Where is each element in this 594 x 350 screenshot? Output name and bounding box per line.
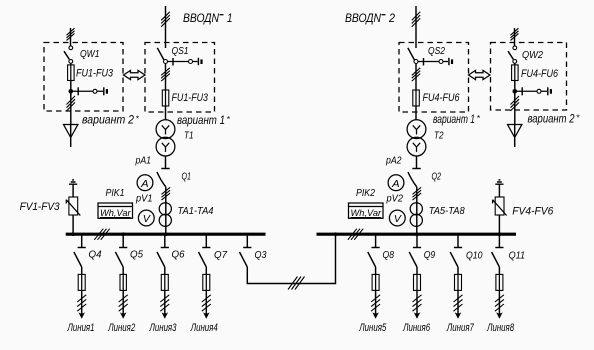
- switch QW2 top circle: [513, 46, 517, 50]
- svg-text:Q9: Q9: [424, 249, 436, 261]
- three-phase slashes (line 7): [454, 295, 463, 311]
- wire arrester to bus: [72, 215, 74, 233]
- wire input 2 drop: [415, 6, 417, 48]
- wire input 1 drop: [165, 6, 167, 48]
- bus-tie switch Q3 stub: [243, 236, 251, 248]
- svg-text:Линия4: Линия4: [190, 322, 218, 334]
- wire fuse to arrow (line 1): [81, 290, 83, 317]
- svg-text:V: V: [394, 213, 402, 225]
- svg-text:FU4-FU6: FU4-FU6: [423, 92, 461, 104]
- ground (FV4-FV6): [495, 180, 503, 184]
- fuse (line 2): [120, 274, 126, 290]
- three-phase slashes (line 3): [160, 295, 169, 311]
- label Q3: [255, 249, 267, 261]
- ammeter pA1: [137, 175, 153, 191]
- svg-text:Wh,Var: Wh,Var: [351, 208, 382, 219]
- svg-text:pV1: pV1: [135, 194, 152, 205]
- wire fuse to arrow (line 3): [164, 290, 166, 317]
- svg-text:ВВОДN: ВВОДN: [183, 11, 219, 25]
- svg-text:TA1-TA4: TA1-TA4: [178, 206, 214, 217]
- label FU1-FU3 (QS1 branch): [172, 92, 209, 104]
- label pV2: [386, 194, 404, 205]
- feeder switch Q9 blade: [409, 252, 417, 267]
- switch Q1 blade: [157, 172, 166, 187]
- svg-text:QS2: QS2: [428, 45, 445, 57]
- fuse (line 8): [496, 274, 503, 290]
- feeder switch Q10 blade: [450, 252, 458, 267]
- wire through triangle: [514, 125, 516, 148]
- variant-1 dashed box (right): [399, 43, 469, 113]
- svg-text:FV1-FV3: FV1-FV3: [20, 201, 61, 213]
- wire T2 to Q2 contact: [416, 156, 418, 169]
- label Линия1: [67, 322, 95, 334]
- earthing branch of QW2: blade circle: [537, 89, 541, 93]
- svg-text:A: A: [140, 178, 149, 190]
- ground (QS2 earthing): [449, 58, 453, 65]
- junction dot FV4-bus: [498, 232, 502, 236]
- label ВВОДN 1: [183, 11, 233, 25]
- three-phase slashes above QW2: [511, 28, 519, 40]
- label pA2: [385, 155, 402, 166]
- wire fuse to arrow (line 7): [457, 290, 459, 317]
- svg-text:ВВОДN: ВВОДN: [345, 11, 381, 25]
- wire fuse to arrow (line 6): [416, 290, 418, 317]
- wire Q4 to fuse: [81, 267, 83, 274]
- three-phase slashes below QS2: [412, 68, 420, 81]
- three-phase slashes (line 2): [119, 295, 128, 311]
- disconnector QS1 blade: [157, 48, 164, 60]
- label Линия2: [107, 322, 135, 334]
- cable termination triangle (right): [508, 125, 522, 138]
- label Линия8: [486, 322, 514, 334]
- wire fuse to T1: [165, 106, 167, 120]
- label Q5: [130, 249, 143, 261]
- label Q4: [89, 249, 102, 261]
- switch QW2 bottom circle: [513, 60, 517, 64]
- junction dot T2-bus: [415, 232, 419, 236]
- feeder switch Q6 blade: [157, 252, 165, 267]
- three-phase slashes above QW1: [67, 28, 75, 40]
- label QS1: [172, 45, 189, 57]
- label FV4-FV6: [512, 206, 554, 218]
- label QW1: [80, 48, 100, 60]
- junction dot Q5-bus: [121, 232, 125, 236]
- wire fuse to arrow (line 8): [498, 290, 500, 317]
- wire fuse to arrow (line 4): [205, 290, 207, 317]
- fuse FU1-FU3 (QW1 branch): [68, 63, 75, 80]
- switch QW1 blade: [64, 51, 69, 59]
- svg-text:1: 1: [227, 11, 233, 25]
- wire fuse to junction: [514, 81, 516, 97]
- label pV1: [135, 194, 152, 205]
- earthing branch of QS1: blade circle: [189, 60, 193, 64]
- switch Q1 fixed contact tick: [161, 168, 169, 170]
- earthing branch of QW2: wire: [515, 90, 547, 92]
- feeder Q8 stub: [372, 236, 380, 248]
- wire Q10 to fuse: [457, 267, 459, 274]
- transfer arrow between left boxes: [124, 70, 146, 79]
- label FU1-FU3 (QW1 branch): [76, 68, 114, 80]
- label FU4-FU6 (QS2 branch): [423, 92, 461, 104]
- feeder switch Q11 blade: [492, 252, 500, 267]
- feeder Q4 stub: [78, 236, 86, 248]
- surge arrester FV4-FV6: [493, 197, 507, 216]
- arrowhead (line 1): [78, 312, 85, 319]
- label TA1-TA4: [178, 206, 214, 217]
- svg-text:pA2: pA2: [385, 155, 402, 166]
- energy meter PIK2 Wh,Var box: [349, 203, 384, 219]
- arrowhead (line 6): [414, 312, 421, 319]
- feeder Q9 stub: [413, 236, 421, 248]
- svg-text:Q7: Q7: [214, 249, 228, 261]
- label вариант 2* (left): [82, 113, 140, 126]
- feeder Q7 stub: [202, 236, 210, 248]
- wire through triangle: [70, 125, 72, 148]
- svg-text:2: 2: [388, 11, 395, 25]
- label Q10: [466, 250, 483, 262]
- feeder switch Q4 blade: [74, 252, 82, 267]
- junction dot T1-bus: [164, 232, 168, 236]
- wire ground to arrester: [72, 184, 74, 197]
- arrowhead (line 4): [203, 312, 210, 319]
- svg-text:Q11: Q11: [509, 250, 525, 262]
- variant-2 dashed box (right): [491, 43, 567, 111]
- svg-text:Q4: Q4: [89, 249, 102, 261]
- feeder Q5 stub: [119, 236, 127, 248]
- earthing branch of QW1: blade circle: [93, 89, 97, 93]
- label Q6: [172, 249, 185, 261]
- wire Q9 to fuse: [416, 267, 418, 274]
- arrowhead (line 5): [372, 312, 379, 319]
- busbar section 1: [66, 233, 266, 236]
- wire Q1 to bus: [165, 187, 167, 234]
- wire fuse to T2: [415, 106, 417, 120]
- svg-text:QW1: QW1: [80, 48, 100, 60]
- svg-text:Wh,Var: Wh,Var: [100, 208, 131, 219]
- svg-text:Q1: Q1: [182, 171, 192, 183]
- feeder Q11 stub: [495, 236, 503, 248]
- svg-text:Q5: Q5: [130, 249, 143, 261]
- switch QW1 top circle: [69, 46, 73, 50]
- switch Q2 blade: [408, 172, 417, 187]
- earthing branch of QW1: contact tick: [77, 87, 79, 95]
- three-phase slashes (line 6): [413, 295, 422, 311]
- svg-text:Линия7: Линия7: [446, 322, 474, 334]
- label QS2: [428, 45, 445, 57]
- svg-text:Q10: Q10: [466, 250, 483, 262]
- svg-text:вариант 2: вариант 2: [528, 114, 575, 126]
- label FU4-FU6 (QW2 branch): [521, 68, 559, 80]
- junction dot QW2: [513, 89, 518, 94]
- svg-text:V: V: [143, 213, 151, 225]
- earthing branch of QS1: wire: [168, 61, 198, 63]
- earthing branch of QW1: wire: [71, 90, 103, 92]
- svg-text:FU4-FU6: FU4-FU6: [521, 68, 559, 80]
- wire Q5 to fuse: [122, 267, 124, 274]
- label Линия4: [190, 322, 218, 334]
- wire QW1 junction down: [70, 91, 72, 124]
- fuse FU1-FU3 (QS1 branch): [162, 90, 169, 106]
- label ВВОДN 2: [345, 11, 395, 25]
- label pA1: [135, 155, 151, 166]
- wire Q11 to fuse: [498, 267, 500, 274]
- arrowhead (line 3): [162, 312, 169, 319]
- wire Q7 to fuse: [205, 267, 207, 274]
- label Линия3: [149, 322, 177, 334]
- wire fuse to arrow (line 2): [122, 290, 124, 317]
- three-phase slashes below QW1 junction: [67, 96, 76, 111]
- svg-text:Q3: Q3: [255, 249, 267, 261]
- busbar section 2: [317, 233, 517, 236]
- wire Q8 to fuse: [375, 267, 377, 274]
- ground (QS1 earthing): [198, 58, 202, 65]
- three-phase slashes (line 5): [371, 295, 380, 311]
- ammeter pA2: [388, 175, 404, 191]
- arrowhead (line 8): [496, 312, 503, 319]
- three-phase slashes on busbar 2: [348, 229, 363, 240]
- label Q2: [432, 171, 442, 183]
- wire ground to arrester: [498, 184, 500, 197]
- wire Q2 to bus: [416, 187, 418, 234]
- wire stub above QW2: [514, 28, 516, 46]
- switch Q2 fixed contact tick: [412, 168, 420, 170]
- transfer arrow between right boxes: [469, 70, 491, 79]
- fuse (line 5): [372, 274, 379, 290]
- fuse FU4-FU6 (QS2 branch): [413, 90, 420, 106]
- arrowhead (line 7): [455, 312, 462, 319]
- three-phase slashes (line 1): [77, 295, 86, 311]
- label Q9: [424, 249, 436, 261]
- svg-text:PIK1: PIK1: [106, 187, 125, 199]
- label Q7: [214, 249, 228, 261]
- label вариант 1* (right): [433, 113, 481, 126]
- svg-text:Линия5: Линия5: [359, 322, 387, 334]
- three-phase slashes on input 1 wire: [161, 12, 170, 27]
- label вариант 2* (right): [528, 112, 581, 125]
- svg-text:вариант 1: вариант 1: [177, 115, 225, 127]
- label T1: [184, 131, 194, 142]
- svg-text:Q8: Q8: [383, 249, 395, 261]
- three-phase slashes (line 4): [202, 295, 211, 311]
- svg-text:вариант 2: вариант 2: [82, 115, 135, 127]
- svg-text:A: A: [391, 178, 400, 190]
- three-phase slashes (line 8): [495, 295, 504, 311]
- svg-text:FU1-FU3: FU1-FU3: [76, 68, 114, 80]
- svg-text:Линия1: Линия1: [67, 322, 95, 334]
- label вариант 1* (left): [177, 114, 231, 127]
- junction dot FV1-bus: [71, 232, 75, 236]
- wire QS1 to fuse: [165, 64, 167, 91]
- fuse (line 1): [78, 274, 85, 290]
- three-phase slashes on bus-tie wire: [288, 277, 305, 290]
- fuse (line 3): [161, 274, 168, 290]
- ground (QW2 earthing): [548, 87, 552, 95]
- bus-tie wire to busbar 2: [247, 236, 335, 284]
- label Q1: [182, 171, 192, 183]
- wire fuse to arrow (line 5): [375, 290, 377, 317]
- earthing branch of QS2: contact tick: [423, 58, 425, 66]
- svg-text:PIK2: PIK2: [356, 187, 375, 199]
- svg-text:вариант 1: вариант 1: [433, 114, 475, 126]
- feeder Q10 stub: [454, 236, 462, 248]
- svg-text:Линия8: Линия8: [486, 322, 514, 334]
- earthing branch of QW2: contact tick: [521, 87, 523, 95]
- svg-text:pA1: pA1: [135, 155, 151, 166]
- label Q11: [509, 250, 525, 262]
- transformer T2: [407, 120, 426, 156]
- three-phase slashes on busbar 1: [94, 229, 109, 240]
- fuse FU4-FU6 (QW2 branch): [512, 63, 518, 80]
- three-phase slashes below Q2: [413, 187, 422, 200]
- svg-text:Q6: Q6: [172, 249, 185, 261]
- svg-text:FV4-FV6: FV4-FV6: [512, 206, 554, 218]
- svg-text:FU1-FU3: FU1-FU3: [172, 92, 209, 104]
- earthing branch of QS2: wire: [418, 61, 448, 63]
- wire arrester to bus: [498, 215, 500, 233]
- svg-text:TA5-TA8: TA5-TA8: [429, 206, 465, 217]
- ground (FV1-FV3): [69, 180, 77, 184]
- wire fuse to junction: [70, 81, 72, 97]
- switch QW2 blade: [508, 51, 513, 59]
- label Линия7: [446, 322, 474, 334]
- label Линия5: [359, 322, 387, 334]
- svg-text:QW2: QW2: [522, 49, 543, 61]
- junction dot QW1: [69, 89, 74, 94]
- bus-tie switch Q3 blade: [240, 252, 248, 267]
- energy meter PIK1 Wh,Var box: [98, 203, 133, 219]
- fuse (line 4): [203, 274, 210, 290]
- svg-text:T2: T2: [434, 131, 444, 142]
- feeder switch Q8 blade: [368, 252, 376, 267]
- variant-2 dashed box (left): [44, 43, 123, 112]
- label TA5-TA8: [429, 206, 465, 217]
- svg-text:QS1: QS1: [172, 45, 189, 57]
- switch QW1 bottom circle: [69, 60, 73, 64]
- wire stub above QW1: [70, 28, 72, 46]
- junction dot tie-bus: [334, 232, 338, 236]
- label PIK1: [106, 187, 125, 199]
- voltmeter pV1: [138, 210, 154, 226]
- variant-1 dashed box (left): [145, 43, 215, 113]
- svg-text:T1: T1: [184, 131, 194, 142]
- three-phase slashes below QS1: [161, 68, 170, 81]
- feeder switch Q7 blade: [199, 252, 207, 267]
- cable termination triangle (left): [64, 125, 78, 138]
- wire T1 to Q1 contact: [165, 156, 167, 169]
- earthing branch of QS2: blade circle: [439, 60, 443, 64]
- label Q8: [383, 249, 395, 261]
- fuse (line 6): [414, 274, 421, 290]
- svg-text:Линия6: Линия6: [402, 322, 430, 334]
- voltmeter pV2: [389, 210, 405, 226]
- svg-text:pV2: pV2: [386, 194, 404, 205]
- wire Q6 to fuse: [164, 267, 166, 274]
- three-phase slashes below Q1: [162, 187, 171, 200]
- wire QW2 junction down: [514, 91, 516, 124]
- feeder switch Q5 blade: [115, 252, 123, 267]
- svg-text:Линия3: Линия3: [149, 322, 177, 334]
- current transformers TA1-TA4: [159, 203, 171, 227]
- svg-text:Линия2: Линия2: [107, 322, 135, 334]
- feeder Q6 stub: [161, 236, 169, 248]
- ground (QW1 earthing): [104, 87, 108, 95]
- disconnector QS2 blade: [408, 48, 415, 60]
- label QW2: [522, 49, 543, 61]
- label T2: [434, 131, 444, 142]
- label PIK2: [356, 187, 375, 199]
- transformer T1: [156, 120, 175, 156]
- three-phase slashes below QW2 junction: [511, 96, 520, 111]
- wire QS2 to fuse: [415, 64, 417, 91]
- fuse (line 7): [455, 274, 462, 290]
- disconnector QS2 pivot circle: [414, 60, 418, 64]
- label FV1-FV3: [20, 201, 61, 213]
- label Линия6: [402, 322, 430, 334]
- three-phase slashes on input 2 wire: [412, 12, 420, 27]
- arrowhead (line 2): [120, 312, 127, 319]
- disconnector QS1 pivot circle: [164, 60, 168, 64]
- surge arrester FV1-FV3: [66, 197, 80, 216]
- earthing branch of QS1: contact tick: [172, 58, 174, 66]
- svg-text:Q2: Q2: [432, 171, 442, 183]
- current transformers TA5-TA8: [410, 203, 422, 227]
